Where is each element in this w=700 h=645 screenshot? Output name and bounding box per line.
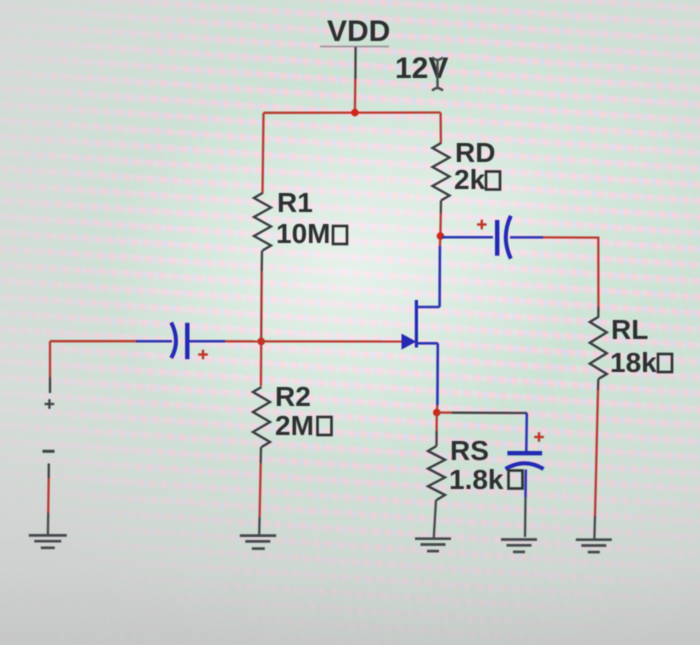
wire RL ground stub (dark) — [593, 516, 596, 539]
transistor Q1 channel bar — [415, 300, 418, 348]
ground RL — [576, 540, 612, 552]
wire Vsig ground stub (dark) — [47, 513, 50, 535]
wire RD bottom stub (dark) — [440, 201, 443, 214]
wire R2 ground stub (dark) — [258, 517, 261, 535]
C1 plus sign — [198, 350, 208, 360]
capacitor C2 curved plate — [506, 216, 511, 259]
svg-text:10M: 10M — [276, 218, 330, 249]
svg-text:R2: R2 — [275, 381, 311, 412]
wire gate node down (red) — [260, 343, 263, 386]
node drain junction — [437, 232, 445, 240]
wire RL top stub (dark) — [597, 307, 599, 318]
wire RL to ground (red) — [595, 390, 598, 516]
wire VDD stub (gray top) — [354, 47, 357, 79]
wire Vsig top stub (dark) — [49, 377, 51, 393]
wire C1 node red — [225, 340, 261, 342]
wire R2 bottom stub (dark) — [260, 447, 263, 463]
wire R2 to ground (red) — [260, 463, 261, 517]
capacitor C1 curved plate — [171, 323, 176, 359]
wire VDD stub (red bottom) — [354, 79, 357, 113]
wire RD to drain node (red) — [439, 213, 442, 234]
wire RS top (red) — [435, 414, 437, 431]
resistor R2 — [253, 387, 270, 447]
wire R1 bottom stub (dark) — [261, 251, 264, 272]
ground R2 — [240, 536, 276, 549]
Vsig plus terminal — [45, 399, 55, 409]
wire top rail — [264, 111, 441, 114]
capacitor CS curved plate — [506, 463, 544, 469]
svg-text:1.8k: 1.8k — [449, 464, 504, 495]
resistor RL — [590, 317, 607, 379]
svg-text:RS: RS — [450, 435, 489, 466]
wire source node to CS (dark) — [452, 412, 527, 415]
resistor R1 — [254, 193, 271, 251]
capacitor C1 straight plate — [185, 323, 189, 359]
mouse I-beam cursor — [432, 58, 443, 91]
wire drain node to C2 (blue) — [442, 236, 493, 239]
wire source vertical (blue) — [436, 343, 439, 405]
wire RD rail top (red) — [439, 113, 442, 144]
transistor Q1 gate arrow — [402, 334, 417, 350]
wire gate (red) — [261, 340, 403, 342]
wire C1 to node (blue) — [190, 340, 226, 343]
wire RL bottom stub dark — [597, 379, 600, 390]
ground RS — [415, 539, 451, 551]
svg-text:2M: 2M — [275, 410, 314, 441]
wire CS ground stub (dark) — [524, 497, 527, 537]
wire C2 right (blue) — [510, 236, 543, 239]
svg-text:12V: 12V — [395, 52, 448, 85]
ground Vsig — [29, 535, 67, 547]
VDD rail bar — [320, 46, 389, 48]
svg-text:2k: 2k — [454, 164, 486, 195]
wire Vsig to ground (red) — [47, 478, 50, 513]
capacitor CS straight plate — [507, 451, 542, 455]
C2 plus sign — [477, 220, 487, 230]
svg-text:R1: R1 — [277, 187, 313, 218]
RL ohm box — [658, 354, 672, 372]
resistor RS — [428, 446, 445, 500]
RD ohm box — [486, 172, 500, 190]
resistor RD — [433, 143, 450, 201]
RS ohm box — [509, 471, 523, 489]
ground CS — [501, 540, 537, 552]
wire R1 to gate node (dark red) — [260, 271, 263, 339]
wire drain to RD node (red) — [439, 236, 442, 246]
R1 ohm box — [333, 226, 347, 244]
svg-text:18k: 18k — [610, 347, 657, 378]
wire left rail top (to R1) — [263, 113, 264, 194]
transistor Q1 drain tap — [416, 306, 439, 309]
wire RS stub (dark) — [435, 431, 437, 446]
node gate junction — [257, 338, 265, 346]
wire CS top (blue) — [525, 413, 528, 451]
wire source node right (red stub) — [438, 411, 452, 413]
transistor Q1 source tap — [416, 342, 437, 345]
Vsig minus terminal — [43, 450, 55, 453]
wire source Vsig top (red) — [49, 341, 51, 377]
node VDD junction — [351, 109, 359, 117]
node source junction — [433, 409, 441, 417]
svg-text:VDD: VDD — [327, 15, 390, 48]
wire drain vertical (blue) — [438, 246, 441, 307]
wire CS bottom (blue) — [524, 470, 527, 498]
wire input to C1 (blue) — [136, 340, 172, 343]
wire source to node (red) — [436, 405, 439, 411]
wire RS to ground (dark) — [434, 500, 436, 538]
svg-text:RL: RL — [611, 314, 648, 345]
CS plus sign — [534, 432, 544, 442]
wire input left segment (red) — [50, 340, 136, 342]
R2 ohm box — [318, 417, 332, 435]
wire C2 to RL corner (red) — [543, 237, 598, 307]
wire Vsig bottom stub (dark) — [48, 464, 50, 479]
capacitor C2 straight plate — [495, 220, 499, 256]
